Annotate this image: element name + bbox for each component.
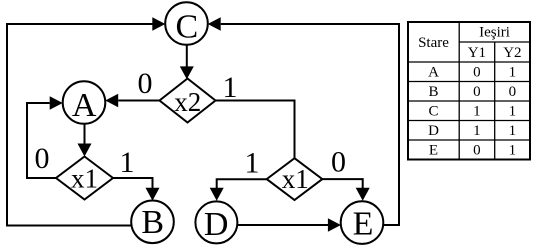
- wire x2 0-branch to A: [118, 100, 159, 102]
- table horizontal line under row B: [408, 100, 530, 102]
- state circle C: [165, 2, 208, 45]
- svg-text:D: D: [428, 123, 439, 139]
- wire x1-right 0-branch to E (right and down): [322, 179, 362, 189]
- wire x1-left 0-branch to A (left, up, into A): [27, 103, 56, 178]
- wire A to x1 left: [84, 124, 86, 145]
- state circle B: [131, 201, 174, 244]
- table row D: [428, 123, 516, 139]
- table row A: [428, 65, 516, 81]
- wire D to E: [237, 224, 328, 226]
- svg-text:Stare: Stare: [418, 35, 449, 51]
- state circle D: [195, 201, 237, 243]
- arrowhead into x2 top: [180, 66, 194, 79]
- table row B: [428, 84, 516, 100]
- table vertical divider Y1|Y2: [494, 42, 496, 160]
- svg-text:E: E: [429, 143, 438, 159]
- wire E to C (right feedback: E right, up right side, into C): [221, 24, 399, 225]
- svg-text:1: 1: [473, 123, 481, 139]
- table outer border: [408, 22, 530, 160]
- arrowhead into A right: [105, 94, 118, 108]
- svg-text:1: 1: [509, 143, 517, 159]
- svg-text:0: 0: [473, 143, 481, 159]
- svg-text:A: A: [428, 65, 439, 81]
- svg-text:D: D: [204, 206, 229, 243]
- svg-text:E: E: [353, 206, 374, 243]
- svg-text:x1: x1: [71, 163, 98, 193]
- svg-text:1: 1: [473, 104, 481, 120]
- wire x2 1-branch to x1 right (across and down): [216, 101, 295, 159]
- arrowhead into B top: [146, 188, 160, 201]
- svg-text:0: 0: [473, 84, 481, 100]
- svg-text:0: 0: [509, 84, 517, 100]
- wire B to C (left feedback: B left, across bottom, up left side, into C): [7, 24, 153, 226]
- wire C to x2: [186, 45, 188, 69]
- svg-text:B: B: [428, 84, 438, 100]
- arrowhead into E top: [356, 188, 370, 201]
- svg-text:0: 0: [35, 142, 50, 175]
- table row E: [429, 143, 516, 159]
- svg-text:1: 1: [245, 146, 260, 179]
- svg-text:C: C: [428, 104, 438, 120]
- svg-text:1: 1: [509, 65, 517, 81]
- table row C: [428, 104, 516, 120]
- table horizontal line under row A: [408, 81, 530, 83]
- svg-text:1: 1: [509, 123, 517, 139]
- table horizontal line under row D: [408, 139, 530, 141]
- arrowhead into E left: [328, 218, 341, 232]
- svg-text:1: 1: [120, 146, 135, 179]
- svg-text:0: 0: [138, 67, 153, 100]
- table horizontal line under header row: [408, 61, 530, 63]
- wire x1-left 1-branch to B (right and down): [113, 178, 153, 189]
- table horizontal line under row C: [408, 120, 530, 122]
- svg-text:A: A: [72, 87, 97, 124]
- svg-text:B: B: [141, 204, 164, 241]
- table horizontal line under Iesiri: [459, 41, 530, 43]
- svg-text:0: 0: [331, 146, 346, 179]
- svg-text:Y1: Y1: [468, 45, 486, 61]
- decision diamond x2: [160, 79, 216, 123]
- state circle E: [341, 201, 384, 244]
- svg-text:x1: x1: [282, 164, 309, 194]
- decision diamond x1 left: [56, 157, 113, 200]
- arrowhead into C left: [152, 17, 165, 31]
- wire x1-right 1-branch to D (left and down): [217, 179, 267, 189]
- state circle A: [63, 81, 106, 124]
- arrowhead into x1 left top: [78, 144, 92, 157]
- arrowhead into D top: [210, 188, 224, 201]
- arrowhead into A left: [50, 96, 63, 110]
- svg-text:1: 1: [223, 71, 238, 104]
- svg-text:C: C: [175, 8, 198, 45]
- svg-text:x2: x2: [174, 87, 201, 117]
- svg-text:Ieşiri: Ieşiri: [479, 25, 510, 41]
- arrowhead into C right: [208, 17, 221, 31]
- svg-text:0: 0: [473, 65, 481, 81]
- svg-text:Y2: Y2: [503, 45, 521, 61]
- decision diamond x1 right: [267, 158, 323, 200]
- svg-text:1: 1: [509, 104, 517, 120]
- table vertical divider Stare|outputs: [458, 22, 460, 160]
